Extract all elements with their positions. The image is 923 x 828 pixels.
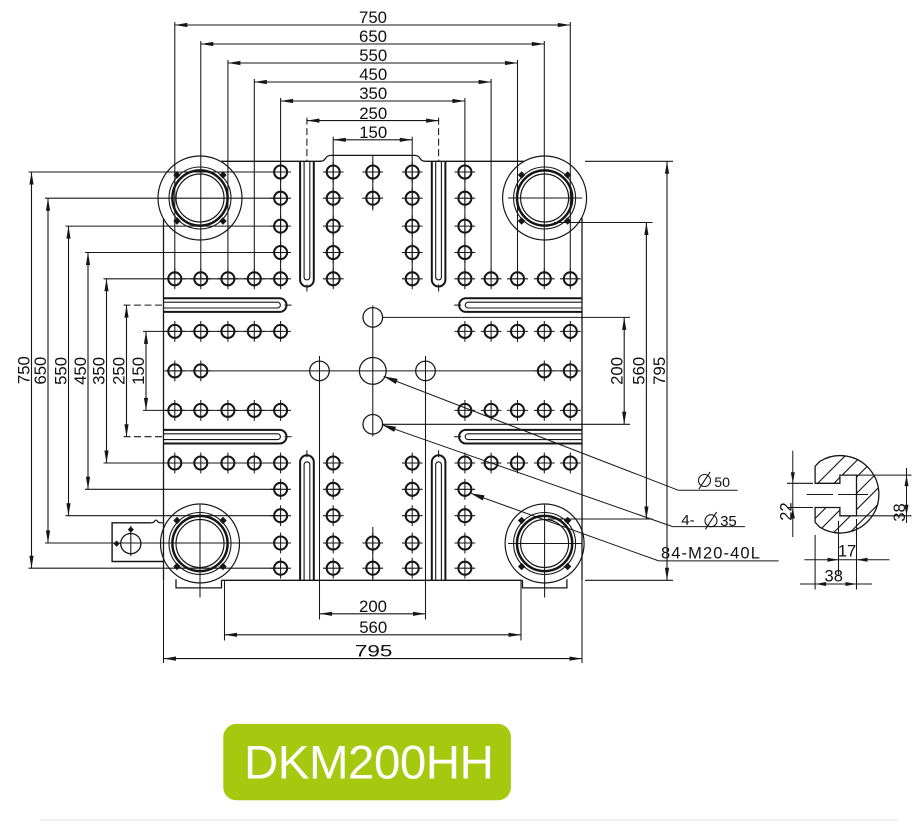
svg-text:35: 35 [720,513,737,530]
svg-text:650: 650 [31,357,50,385]
svg-text:795: 795 [650,357,669,385]
svg-text:550: 550 [52,357,71,385]
svg-text:DKM200HH: DKM200HH [244,737,493,790]
svg-text:550: 550 [359,46,387,65]
svg-text:17: 17 [838,543,856,561]
svg-text:450: 450 [359,65,387,84]
svg-text:38: 38 [825,568,843,586]
svg-text:450: 450 [71,357,90,385]
svg-text:38: 38 [891,503,909,521]
svg-text:250: 250 [359,104,387,123]
svg-text:200: 200 [359,597,387,616]
svg-text:350: 350 [90,357,109,385]
svg-text:650: 650 [359,27,387,46]
svg-text:350: 350 [359,84,387,103]
svg-text:200: 200 [607,357,626,385]
svg-text:750: 750 [359,8,387,27]
svg-text:560: 560 [359,618,387,637]
svg-text:150: 150 [129,357,148,385]
svg-text:795: 795 [355,642,393,661]
svg-text:50: 50 [714,475,730,491]
svg-text:4-: 4- [681,512,694,529]
svg-text:84-M20-40L: 84-M20-40L [661,545,761,563]
svg-text:560: 560 [630,357,649,385]
svg-text:150: 150 [359,123,387,142]
svg-text:250: 250 [110,357,129,385]
svg-text:22: 22 [777,502,795,520]
